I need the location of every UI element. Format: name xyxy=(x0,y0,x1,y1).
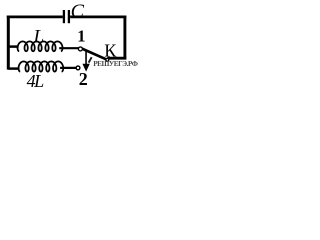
switch K blade xyxy=(82,49,107,60)
switch arrow shaft xyxy=(85,51,87,65)
svg-text:L: L xyxy=(33,26,45,47)
svg-text:РЕШУЕГЭ.РФ: РЕШУЕГЭ.РФ xyxy=(93,60,138,68)
svg-text:К: К xyxy=(104,41,117,61)
capacitor C plate left xyxy=(63,10,65,23)
switch arrow head xyxy=(82,64,89,72)
capacitor C plate right xyxy=(68,10,70,23)
svg-text:1: 1 xyxy=(77,27,85,46)
inductor 4L coil xyxy=(19,61,64,71)
wire inductor L to contact 1 xyxy=(59,47,78,49)
wire left vertical xyxy=(7,16,10,70)
svg-text:2: 2 xyxy=(79,69,88,89)
wire stub left to inductor 4L xyxy=(8,67,19,70)
wire top-left horizontal xyxy=(7,15,63,18)
switch pivot circle xyxy=(106,58,109,61)
switch contact 1 xyxy=(78,47,82,51)
svg-text:4L: 4L xyxy=(27,71,44,91)
svg-text:C: C xyxy=(71,1,85,23)
wire stub left to inductor L xyxy=(8,45,18,48)
wire bottom-right to switch pivot xyxy=(107,57,126,60)
wire right vertical xyxy=(123,16,126,60)
watermark logo tick xyxy=(89,57,92,62)
wire capacitor to top-right corner xyxy=(70,15,126,18)
wire inductor 4L to contact 2 xyxy=(60,67,76,69)
switch contact 2 xyxy=(76,66,80,70)
inductor L coil xyxy=(18,41,63,51)
